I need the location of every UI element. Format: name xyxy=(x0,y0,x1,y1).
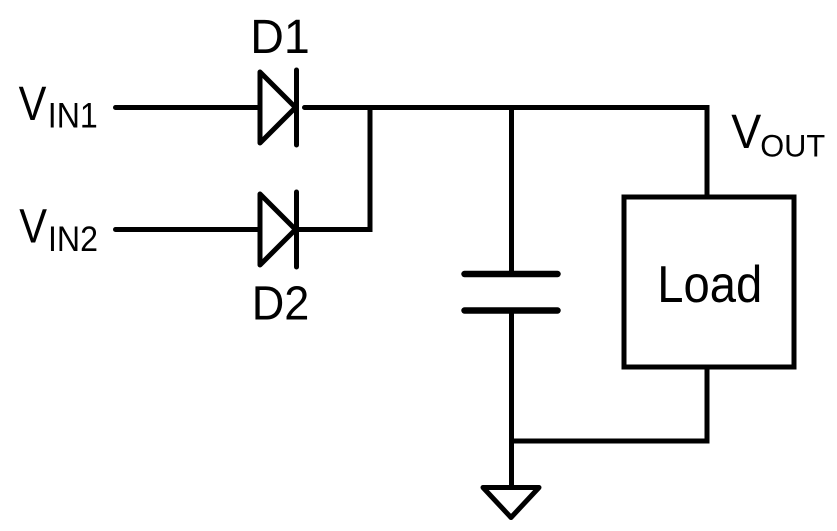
svg-text:IN1: IN1 xyxy=(48,96,98,136)
svg-text:Load: Load xyxy=(657,255,762,313)
svg-text:OUT: OUT xyxy=(760,127,825,163)
svg-text:V: V xyxy=(19,77,47,131)
svg-text:D2: D2 xyxy=(252,278,310,331)
svg-text:IN2: IN2 xyxy=(48,219,98,259)
svg-text:V: V xyxy=(19,200,47,254)
svg-text:V: V xyxy=(731,105,762,159)
svg-text:D1: D1 xyxy=(250,11,310,64)
